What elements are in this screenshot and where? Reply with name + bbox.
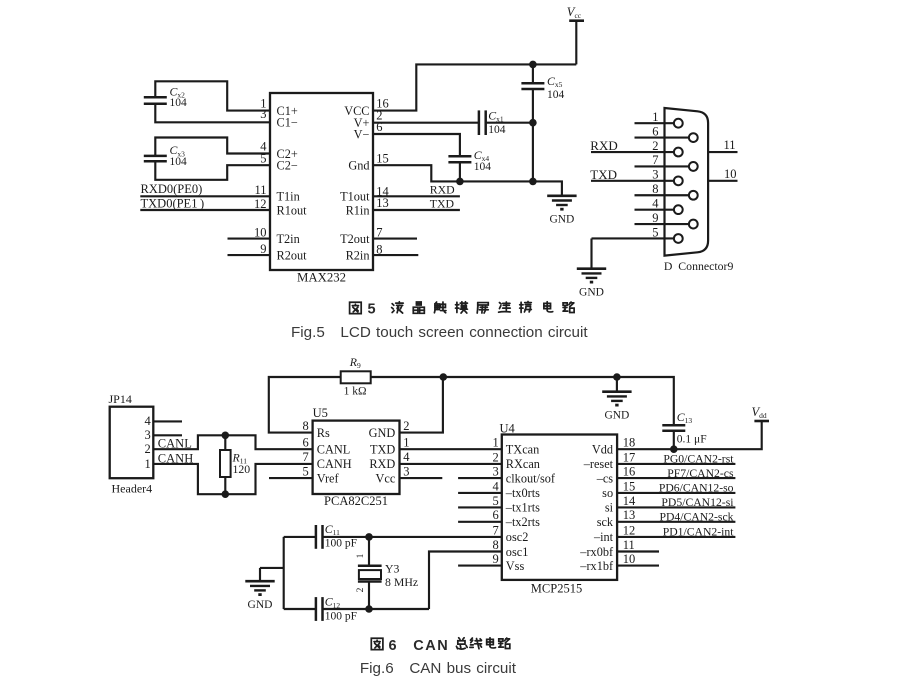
svg-text:4: 4 <box>493 479 500 493</box>
svg-text:2: 2 <box>652 139 658 153</box>
svg-text:MAX232: MAX232 <box>297 271 346 285</box>
svg-text:GND: GND <box>369 426 396 440</box>
svg-text:4: 4 <box>403 450 410 464</box>
svg-text:D Connector9: D Connector9 <box>664 259 734 273</box>
svg-text:8 MHz: 8 MHz <box>385 575 418 589</box>
svg-text:CANH: CANH <box>158 451 193 465</box>
svg-text:18: 18 <box>623 436 636 450</box>
svg-text:RXD: RXD <box>430 183 455 197</box>
svg-text:TXD: TXD <box>430 197 455 211</box>
svg-text:4: 4 <box>652 196 659 210</box>
svg-text:Fig.6 CAN bus circuit: Fig.6 CAN bus circuit <box>360 660 517 677</box>
svg-text:8: 8 <box>303 419 309 433</box>
svg-text:11: 11 <box>254 183 266 197</box>
svg-text:V−: V− <box>354 127 370 141</box>
svg-text:100 pF: 100 pF <box>325 537 357 549</box>
svg-text:osc2: osc2 <box>506 530 529 544</box>
svg-text:104: 104 <box>488 124 506 136</box>
svg-text:PG0/CAN2-rst: PG0/CAN2-rst <box>663 453 734 466</box>
svg-text:13: 13 <box>376 196 389 210</box>
svg-text:CAN: CAN <box>413 638 449 654</box>
svg-text:6: 6 <box>303 435 309 449</box>
svg-text:osc1: osc1 <box>506 545 529 559</box>
svg-text:120: 120 <box>233 462 251 476</box>
svg-text:1: 1 <box>356 553 366 558</box>
svg-text:6: 6 <box>493 508 499 522</box>
svg-text:1 kΩ: 1 kΩ <box>344 385 367 397</box>
svg-text:so: so <box>602 486 613 500</box>
svg-text:Vss: Vss <box>506 559 525 573</box>
svg-text:16: 16 <box>623 465 636 479</box>
svg-text:T2out: T2out <box>340 232 370 246</box>
svg-text:R2in: R2in <box>346 248 370 262</box>
svg-text:11: 11 <box>623 538 635 552</box>
svg-text:8: 8 <box>493 538 499 552</box>
svg-text:2: 2 <box>356 587 366 592</box>
svg-text:GND: GND <box>604 410 629 422</box>
svg-text:–tx2rts: –tx2rts <box>505 515 540 529</box>
svg-text:9: 9 <box>493 552 499 566</box>
svg-text:7: 7 <box>493 523 499 537</box>
svg-text:1: 1 <box>403 435 409 449</box>
svg-text:PD5/CAN12-si: PD5/CAN12-si <box>661 496 734 509</box>
svg-text:9: 9 <box>260 242 266 256</box>
svg-text:104: 104 <box>474 161 492 173</box>
svg-text:Vcc: Vcc <box>376 471 396 485</box>
svg-text:3: 3 <box>403 464 409 478</box>
svg-text:TXD: TXD <box>370 443 395 457</box>
svg-text:6: 6 <box>389 638 397 654</box>
svg-text:R2out: R2out <box>277 248 308 262</box>
svg-text:CANH: CANH <box>317 457 352 471</box>
svg-text:104: 104 <box>547 89 565 101</box>
svg-text:PD4/CAN2-sck: PD4/CAN2-sck <box>659 511 733 524</box>
svg-text:PCA82C251: PCA82C251 <box>324 494 388 508</box>
svg-text:R1out: R1out <box>277 203 308 217</box>
svg-text:–rx1bf: –rx1bf <box>579 559 614 573</box>
svg-text:R1in: R1in <box>346 203 370 217</box>
svg-text:10: 10 <box>724 167 737 181</box>
svg-text:3: 3 <box>145 428 151 442</box>
svg-text:C2−: C2− <box>277 159 298 173</box>
svg-text:–reset: –reset <box>583 457 614 471</box>
svg-text:2: 2 <box>145 442 151 456</box>
svg-text:17: 17 <box>623 450 636 464</box>
svg-text:1: 1 <box>145 457 151 471</box>
svg-text:–int: –int <box>593 530 614 544</box>
svg-text:104: 104 <box>170 156 188 168</box>
svg-text:7: 7 <box>376 226 382 240</box>
svg-text:TXD0(PE1 ): TXD0(PE1 ) <box>141 196 205 210</box>
svg-text:7: 7 <box>652 153 658 167</box>
svg-text:5: 5 <box>260 151 266 165</box>
svg-text:15: 15 <box>623 479 636 493</box>
svg-text:T1out: T1out <box>340 190 370 204</box>
svg-text:4: 4 <box>145 414 152 428</box>
svg-text:5: 5 <box>652 225 658 239</box>
svg-text:Y3: Y3 <box>385 561 400 575</box>
svg-text:TXD: TXD <box>590 167 617 182</box>
svg-text:14: 14 <box>623 494 636 508</box>
svg-text:104: 104 <box>170 97 188 109</box>
svg-text:–tx1rts: –tx1rts <box>505 501 540 515</box>
svg-text:15: 15 <box>376 151 389 165</box>
svg-text:1: 1 <box>493 436 499 450</box>
svg-text:RXcan: RXcan <box>506 457 540 471</box>
svg-text:5: 5 <box>303 464 309 478</box>
svg-text:clkout/sof: clkout/sof <box>506 471 556 485</box>
svg-text:GND: GND <box>248 599 273 611</box>
svg-text:Vref: Vref <box>317 471 340 485</box>
svg-text:U5: U5 <box>313 406 328 420</box>
svg-text:JP14: JP14 <box>109 392 132 406</box>
svg-text:Vdd: Vdd <box>592 443 613 457</box>
svg-text:3: 3 <box>493 465 499 479</box>
svg-text:GND: GND <box>579 287 604 299</box>
svg-text:–rx0bf: –rx0bf <box>579 545 614 559</box>
svg-text:U4: U4 <box>500 422 516 436</box>
svg-text:5: 5 <box>368 302 376 318</box>
svg-text:TXcan: TXcan <box>506 443 539 457</box>
svg-text:–cs: –cs <box>596 471 614 485</box>
svg-text:GND: GND <box>549 214 574 226</box>
svg-text:PF7/CAN2-cs: PF7/CAN2-cs <box>667 467 734 480</box>
svg-text:11: 11 <box>723 138 735 152</box>
svg-text:3: 3 <box>652 168 658 182</box>
svg-text:9: 9 <box>652 211 658 225</box>
svg-text:8: 8 <box>652 182 658 196</box>
svg-text:si: si <box>605 501 614 515</box>
svg-text:–tx0rts: –tx0rts <box>505 486 540 500</box>
svg-text:Fig.5 LCD touch screen conne: Fig.5 LCD touch screen connection circui… <box>291 324 588 341</box>
svg-text:CANL: CANL <box>317 443 350 457</box>
svg-text:2: 2 <box>493 450 499 464</box>
svg-text:3: 3 <box>260 107 266 121</box>
svg-text:13: 13 <box>623 508 636 522</box>
svg-text:1: 1 <box>652 110 658 124</box>
svg-text:Rs: Rs <box>317 426 330 440</box>
svg-text:Gnd: Gnd <box>348 159 369 173</box>
svg-text:RXD: RXD <box>590 138 617 153</box>
svg-text:T1in: T1in <box>277 190 300 204</box>
svg-text:5: 5 <box>493 494 499 508</box>
svg-text:10: 10 <box>623 552 636 566</box>
svg-text:10: 10 <box>254 226 267 240</box>
svg-text:C1−: C1− <box>277 116 298 130</box>
svg-text:CANL: CANL <box>158 436 192 450</box>
svg-text:PD6/CAN12-so: PD6/CAN12-so <box>659 482 734 495</box>
svg-text:sck: sck <box>597 515 614 529</box>
svg-text:MCP2515: MCP2515 <box>531 581 582 595</box>
svg-text:RXD: RXD <box>369 457 395 471</box>
svg-text:100 pF: 100 pF <box>325 611 357 623</box>
svg-text:Header4: Header4 <box>112 482 153 496</box>
svg-text:0.1 μF: 0.1 μF <box>677 433 707 445</box>
svg-text:2: 2 <box>403 419 409 433</box>
svg-text:PD1/CAN2-int: PD1/CAN2-int <box>663 526 735 539</box>
svg-text:7: 7 <box>303 450 309 464</box>
svg-text:12: 12 <box>623 523 636 537</box>
svg-text:T2in: T2in <box>277 232 300 246</box>
svg-text:12: 12 <box>254 197 267 211</box>
svg-text:RXD0(PE0): RXD0(PE0) <box>141 182 203 196</box>
svg-text:6: 6 <box>652 124 658 138</box>
